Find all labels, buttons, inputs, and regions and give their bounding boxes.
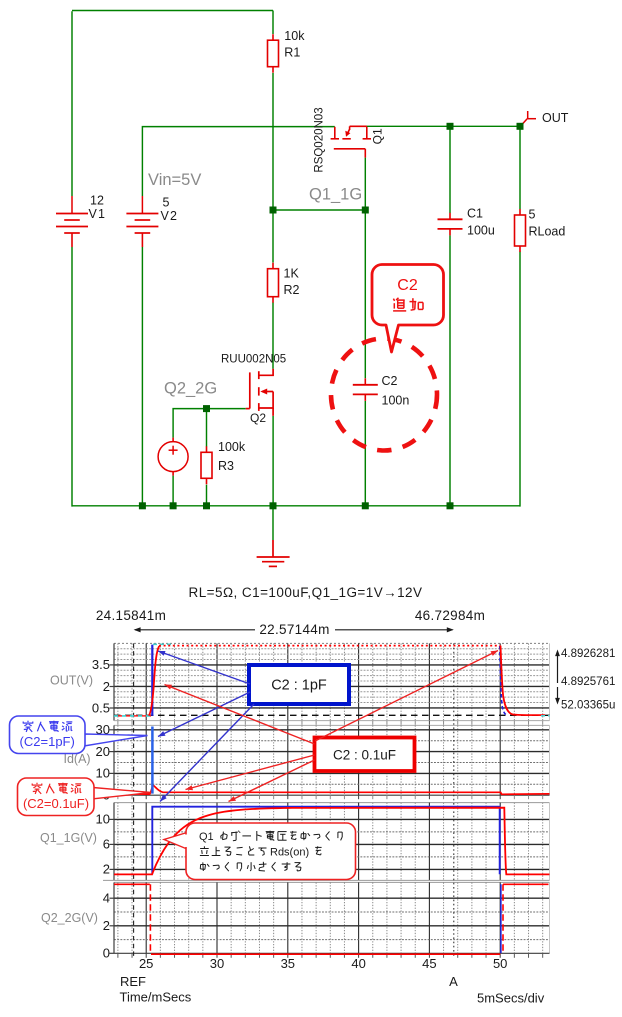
svg-text:Q1_1G(V): Q1_1G(V): [40, 831, 97, 845]
wire node to R3 top: [206, 409, 208, 447]
svg-text:2: 2: [103, 862, 110, 877]
red arrow to Id bump: [186, 755, 315, 790]
wire V1 top column: [71, 11, 73, 196]
Q2_2G blue edges: [500, 884, 502, 953]
svg-text:C2 : 1pF: C2 : 1pF: [271, 678, 327, 694]
blue arrow to Q1_1G step: [160, 704, 254, 802]
OUT red curve top (dotted): [159, 645, 500, 647]
wire OUT to RLoad: [519, 126, 521, 209]
svg-text:R1: R1: [284, 46, 300, 60]
svg-text:1K: 1K: [284, 267, 300, 281]
wire R1 top lead: [272, 11, 274, 35]
transistor Q1 RSQ020N03 (P-MOSFET): [331, 126, 371, 157]
svg-text:Vin=5V: Vin=5V: [148, 171, 201, 189]
transistor Q2 RUU002N05 (N-MOSFET): [246, 369, 273, 416]
voltage source V3 (pulse): [172, 438, 174, 442]
svg-text:C1: C1: [467, 207, 483, 221]
svg-text:C2: C2: [397, 277, 418, 294]
svg-text:V2: V2: [161, 209, 179, 223]
wire RLoad bottom: [519, 252, 521, 507]
wire V2 bottom column: [141, 247, 143, 506]
annotation bubble Q1 gate explanation: [164, 833, 187, 850]
Q1_1G red curve: [114, 808, 550, 875]
annotation box C2:1pF: [249, 665, 349, 704]
svg-text:Q2: Q2: [250, 411, 266, 425]
svg-text:RSQ020N03: RSQ020N03: [314, 107, 326, 172]
capacitor C1: [449, 213, 451, 220]
node gate node left: [270, 207, 277, 214]
svg-text:10: 10: [96, 766, 110, 781]
axis panel Id(A) grid: [114, 724, 550, 726]
svg-text:Q1: Q1: [371, 128, 385, 144]
wire rail to ground symbol: [272, 506, 274, 540]
svg-text:0: 0: [103, 946, 110, 961]
node gnd Q2: [270, 502, 277, 509]
svg-text:22.57144m: 22.57144m: [259, 622, 329, 637]
cursor line A: [453, 643, 455, 957]
svg-text:30: 30: [210, 956, 224, 971]
annotation text "q1line2": [200, 846, 267, 855]
svg-text:0.5: 0.5: [92, 700, 110, 715]
svg-text:12: 12: [90, 194, 104, 208]
svg-text:10k: 10k: [284, 29, 305, 43]
wire Q2 source to rail: [272, 416, 274, 506]
svg-text:45: 45: [422, 956, 436, 971]
voltage source V1 (battery): [71, 196, 73, 214]
Q2_2G red curve: [114, 883, 150, 885]
OUT red curve tail: [529, 714, 545, 716]
wire Q2 gate to V3 top: [173, 409, 246, 438]
wire R2 bottom to Q2 drain: [272, 303, 274, 369]
blue arrow to Id spike: [158, 692, 250, 737]
svg-text:RL=5Ω, C1=100uF,Q1_1G=1V→12V: RL=5Ω, C1=100uF,Q1_1G=1V→12V: [189, 585, 423, 600]
svg-text:6: 6: [103, 837, 110, 852]
OUT blue curve step: [151, 645, 153, 716]
OUT blue curve pre-step (cyan dashed): [114, 715, 151, 717]
axis panel Q1_1G(V) grid: [114, 802, 550, 804]
horizontal cursor dashed line (52u level): [114, 714, 550, 716]
node gnd R3: [203, 502, 210, 509]
OUT red curve rise: [149, 646, 160, 716]
annotation text "tsuika": [393, 298, 423, 311]
Id blue inrush spike: [151, 727, 154, 794]
svg-text:R3: R3: [218, 459, 234, 473]
svg-text:4: 4: [103, 890, 110, 905]
blue arrow to OUT rise: [158, 651, 250, 684]
svg-text:24.15841m: 24.15841m: [96, 608, 166, 623]
node gate node right: [362, 207, 369, 214]
svg-text:46.72984m: 46.72984m: [415, 608, 485, 623]
node OUT-C1: [447, 123, 454, 130]
wire gate node Q1_1G: [273, 209, 365, 211]
resistor RLoad: [519, 209, 521, 215]
wire C1 bottom to rail: [449, 235, 451, 505]
wire Q1 drain to OUT rail: [367, 125, 520, 127]
svg-text:100n: 100n: [382, 394, 410, 408]
svg-text:C2: C2: [382, 374, 398, 388]
cursor line REF: [133, 643, 135, 957]
svg-text:25: 25: [139, 956, 153, 971]
svg-text:Rds(on): Rds(on): [270, 846, 309, 858]
svg-text:35: 35: [281, 956, 295, 971]
wire V1 bottom column: [71, 247, 73, 507]
node gnd V3: [170, 502, 177, 509]
svg-text:Q1_1G: Q1_1G: [309, 186, 362, 204]
svg-text:3.5: 3.5: [92, 657, 110, 672]
svg-text:V1: V1: [89, 207, 107, 221]
svg-text:20: 20: [96, 744, 110, 759]
svg-text:52.03365u: 52.03365u: [561, 700, 615, 712]
Id red curve: [114, 785, 550, 794]
right readout arrows: [557, 652, 559, 683]
node gnd V2: [139, 502, 146, 509]
red arrow to OUT fall: [315, 651, 498, 742]
svg-text:10: 10: [96, 812, 110, 827]
resistor R2: [272, 263, 274, 269]
svg-text:R2: R2: [284, 283, 300, 297]
resistor R3: [206, 446, 208, 452]
OUT blue curve top (cyan dashed): [153, 643, 171, 645]
svg-text:2: 2: [103, 918, 110, 933]
svg-text:Q2_2G: Q2_2G: [164, 380, 217, 398]
node gnd C1: [447, 502, 454, 509]
svg-text:REF: REF: [120, 974, 146, 989]
svg-text:40: 40: [351, 956, 365, 971]
svg-text:RLoad: RLoad: [529, 225, 566, 239]
wire top rail 12V: [72, 10, 273, 12]
resistor R1: [272, 34, 274, 40]
annotation text "q1line2b": [315, 846, 321, 855]
svg-text:5mSecs/div: 5mSecs/div: [477, 991, 545, 1006]
svg-text:(C2=0.1uF): (C2=0.1uF): [23, 796, 89, 811]
svg-text:RUU002N05: RUU002N05: [221, 354, 286, 366]
OUT cyan tail: [541, 715, 550, 717]
svg-text:Q2_2G(V): Q2_2G(V): [41, 911, 98, 925]
capacitor C2: [364, 378, 366, 385]
svg-text:Q1: Q1: [199, 831, 214, 843]
wire C2 bottom to rail: [364, 401, 366, 506]
node OUT (output flag): [522, 111, 537, 125]
annotation text "q1line3": [200, 862, 301, 871]
Q1_1G blue curve: [152, 807, 499, 875]
wire R3 bottom to rail: [206, 485, 208, 506]
annotation text "tonyu-denryu-blue": [23, 721, 72, 732]
wire V3 bottom to rail: [172, 476, 174, 506]
voltage source V2 (battery): [141, 196, 143, 214]
ground: [257, 540, 290, 566]
svg-text:Time/mSecs: Time/mSecs: [120, 990, 192, 1005]
wire R1 bottom to R2 (through gate node): [272, 73, 274, 263]
red arrow to OUT rise: [165, 685, 315, 745]
svg-text:5: 5: [163, 196, 170, 210]
annotation bubble inrush current (C2=0.1uF): [92, 788, 151, 800]
svg-text:50: 50: [493, 956, 507, 971]
axis panel Q2_2G(V) grid: [114, 881, 550, 883]
svg-text:(C2=1pF): (C2=1pF): [20, 734, 75, 749]
node gnd C2: [362, 502, 369, 509]
svg-text:100k: 100k: [218, 440, 246, 454]
svg-text:100u: 100u: [467, 224, 495, 238]
wire V2 to Q1 source: [142, 127, 334, 196]
node Q2 gate node: [203, 405, 210, 412]
measurement arrow between cursors: [135, 629, 255, 631]
red arrow to Q1_1G curve: [229, 760, 315, 802]
annotation dashed circle around C2: [331, 339, 437, 451]
svg-text:4.8925761: 4.8925761: [561, 676, 615, 688]
annotation bubble inrush current (C2=1pF): [84, 734, 148, 746]
axis panel OUT(V) grid: [114, 642, 550, 644]
OUT blue curve fall (dashed): [500, 646, 507, 715]
svg-text:A: A: [449, 974, 458, 989]
svg-text:5: 5: [529, 208, 536, 222]
wire ground rail: [72, 505, 520, 507]
wire node to C2: [364, 210, 366, 378]
OUT red curve fall: [501, 646, 530, 716]
wire Q1 gate down to node: [364, 158, 366, 210]
svg-text:OUT(V): OUT(V): [50, 674, 93, 688]
annotation text "q1line1": [221, 831, 343, 841]
svg-text:C2 : 0.1uF: C2 : 0.1uF: [333, 748, 396, 763]
svg-text:4.8926281: 4.8926281: [561, 648, 615, 660]
annotation text "tonyu-denryu-red": [32, 783, 81, 794]
annotation box C2:0.1uF: [315, 738, 415, 772]
annotation speech bubble "C2 追加": [372, 265, 444, 353]
svg-text:OUT: OUT: [542, 111, 569, 125]
wire OUT rail to C1: [449, 126, 451, 213]
node OUT-RLoad: [517, 123, 524, 130]
svg-text:2: 2: [103, 679, 110, 694]
